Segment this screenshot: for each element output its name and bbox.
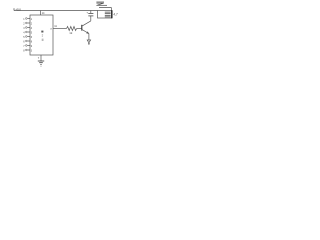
svg-text:9: 9 <box>31 45 33 48</box>
node pin 5 <box>23 36 33 39</box>
op-amp U1 IC body <box>30 15 53 55</box>
node pin 8 <box>23 49 33 52</box>
loudspeaker LS1 coil lines <box>105 11 111 13</box>
svg-text:14: 14 <box>42 11 45 15</box>
node pin 7 <box>23 45 33 48</box>
svg-text:1: 1 <box>31 18 33 21</box>
node pin 2 <box>23 22 33 25</box>
op-amp U1 internal rotated part-name text <box>41 31 43 41</box>
svg-text:3: 3 <box>23 27 25 30</box>
svg-text:7: 7 <box>38 56 40 60</box>
svg-text:7: 7 <box>23 45 25 48</box>
wire IC pin 7 to ground <box>40 55 42 61</box>
svg-text:1k: 1k <box>69 31 73 35</box>
wire speaker cone to body <box>111 8 113 11</box>
svg-text:6: 6 <box>23 40 25 43</box>
svg-text:4: 4 <box>31 27 33 30</box>
wire top supply rail <box>14 10 98 12</box>
svg-text:4,7: 4,7 <box>113 13 118 17</box>
svg-text:3: 3 <box>31 49 33 52</box>
svg-text:4: 4 <box>23 31 25 34</box>
svg-text:1: 1 <box>23 18 25 21</box>
resistor R1 <box>67 27 77 31</box>
wire IC pin 14 to VCC rail <box>40 11 42 16</box>
svg-text:2: 2 <box>23 22 25 25</box>
svg-text:+: + <box>86 10 88 14</box>
node pin 1 <box>23 18 33 21</box>
wire resistor to transistor base <box>77 28 82 30</box>
wire IC output to resistor <box>53 28 67 30</box>
svg-text:o: o <box>50 28 52 31</box>
wire emitter down <box>88 34 90 41</box>
svg-text:+5V: +5V <box>15 8 22 12</box>
node pin 3 <box>23 27 33 30</box>
transistor Q1 <box>81 25 83 31</box>
loudspeaker LS1 body <box>98 11 112 19</box>
svg-text:5: 5 <box>31 31 33 34</box>
node pin 4 <box>23 31 33 34</box>
svg-text:8: 8 <box>23 49 25 52</box>
loudspeaker LS1 cone lines <box>96 1 104 3</box>
wire collector up to capacitor <box>90 16 92 21</box>
svg-text:8: 8 <box>31 40 33 43</box>
ground <box>38 60 44 62</box>
node VCC supply terminal <box>13 8 15 10</box>
svg-text:5: 5 <box>23 36 25 39</box>
ground (emitter terminal arrow) <box>87 40 90 43</box>
capacitor C1 (polarized, series from rail) <box>90 11 92 14</box>
svg-text:2: 2 <box>31 22 33 25</box>
node pin 6 <box>23 40 33 43</box>
svg-text:6: 6 <box>31 36 33 39</box>
svg-text:11: 11 <box>54 24 57 28</box>
